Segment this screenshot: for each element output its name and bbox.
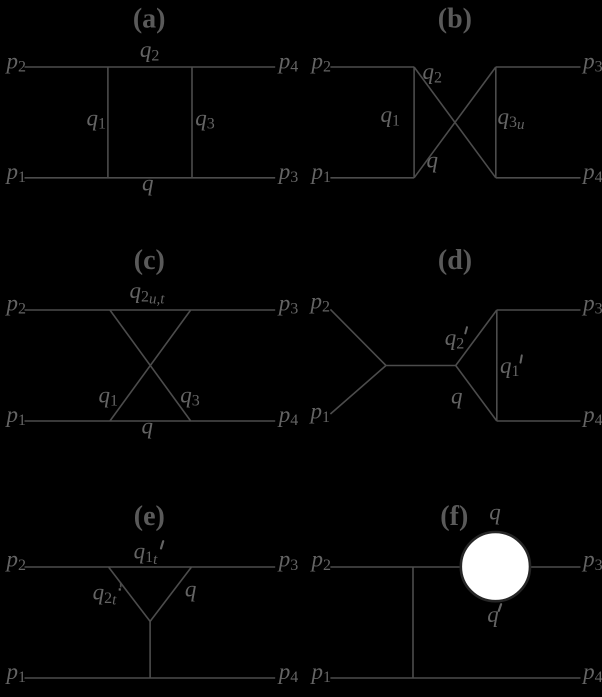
svg-text:q: q [487,602,499,627]
svg-text:(f): (f) [440,501,468,532]
svg-text:q: q [185,576,197,601]
svg-text:(a): (a) [133,3,166,34]
svg-text:q: q [142,171,154,196]
svg-text:(c): (c) [134,245,165,276]
svg-text:(b): (b) [438,3,472,34]
svg-text:(e): (e) [134,501,165,532]
svg-text:q: q [451,383,463,408]
svg-text:q: q [427,148,439,173]
svg-text:q: q [489,499,501,524]
svg-text:q: q [142,414,154,439]
svg-text:(d): (d) [438,245,472,276]
